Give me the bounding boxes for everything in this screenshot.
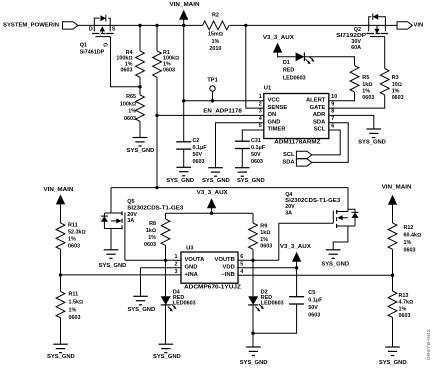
svg-text:Q5: Q5 xyxy=(127,199,134,205)
svg-text:SCL: SCL xyxy=(283,152,295,158)
svg-text:SDA: SDA xyxy=(313,119,326,125)
svg-text:GND: GND xyxy=(268,119,281,125)
svg-text:SYSTEM_POWERIN: SYSTEM_POWERIN xyxy=(3,22,59,28)
svg-text:VOUTA: VOUTA xyxy=(185,257,206,263)
svg-text:0603: 0603 xyxy=(404,247,416,253)
svg-text:0603: 0603 xyxy=(251,159,263,165)
svg-text:1: 1 xyxy=(175,254,178,260)
svg-text:1%: 1% xyxy=(212,39,220,45)
svg-text:0.1μF: 0.1μF xyxy=(193,145,208,151)
svg-text:TIMER: TIMER xyxy=(268,127,287,133)
svg-text:4: 4 xyxy=(259,116,262,122)
svg-text:60.4kΩ: 60.4kΩ xyxy=(404,232,422,238)
svg-text:SDA: SDA xyxy=(282,159,295,165)
svg-text:LED0603: LED0603 xyxy=(173,300,196,306)
svg-text:LED0603: LED0603 xyxy=(283,75,306,81)
svg-text:1%: 1% xyxy=(404,240,412,246)
svg-text:1%: 1% xyxy=(362,88,370,94)
svg-text:4.7kΩ: 4.7kΩ xyxy=(399,300,414,306)
svg-text:0603: 0603 xyxy=(144,242,156,248)
svg-text:1kΩ: 1kΩ xyxy=(260,230,270,236)
svg-text:R11: R11 xyxy=(68,223,78,229)
svg-text:R65: R65 xyxy=(126,94,136,100)
svg-text:SYS_GND: SYS_GND xyxy=(127,148,155,154)
svg-text:SI2302CDS-T1-GE3: SI2302CDS-T1-GE3 xyxy=(127,206,183,212)
svg-text:0603: 0603 xyxy=(163,68,175,74)
svg-text:1%: 1% xyxy=(392,88,400,94)
svg-text:SI7192DP: SI7192DP xyxy=(336,33,366,39)
svg-text:Si2302CDS-T1-GE3: Si2302CDS-T1-GE3 xyxy=(285,198,340,204)
svg-text:0603: 0603 xyxy=(260,244,272,250)
svg-text:R11: R11 xyxy=(69,292,79,298)
svg-text:SYS_GND: SYS_GND xyxy=(166,178,194,184)
svg-text:VDD: VDD xyxy=(223,265,235,271)
svg-text:50V: 50V xyxy=(308,305,318,311)
svg-text:VCC: VCC xyxy=(268,98,281,104)
svg-text:−INB: −INB xyxy=(221,272,234,278)
svg-text:1%: 1% xyxy=(260,237,268,243)
svg-text:R5: R5 xyxy=(362,75,369,81)
svg-text:0603: 0603 xyxy=(308,313,320,319)
svg-text:50V: 50V xyxy=(193,152,203,158)
svg-text:V3_3_AUX: V3_3_AUX xyxy=(263,35,294,41)
svg-text:10: 10 xyxy=(331,94,337,100)
svg-text:0603: 0603 xyxy=(124,116,136,122)
svg-text:ALERT: ALERT xyxy=(306,98,326,104)
svg-text:SCL: SCL xyxy=(314,127,326,133)
svg-text:1kΩ: 1kΩ xyxy=(362,82,372,88)
svg-text:R13: R13 xyxy=(399,293,409,299)
svg-text:EN_ADP1178: EN_ADP1178 xyxy=(203,108,242,114)
svg-text:50V: 50V xyxy=(251,152,261,158)
svg-text:1.5kΩ: 1.5kΩ xyxy=(69,300,84,306)
svg-text:Q4: Q4 xyxy=(285,192,292,198)
svg-text:6: 6 xyxy=(331,123,334,129)
svg-text:D1: D1 xyxy=(283,60,290,66)
svg-text:VOUTB: VOUTB xyxy=(215,257,235,263)
svg-text:ADR: ADR xyxy=(313,112,326,118)
svg-text:8: 8 xyxy=(331,109,334,115)
svg-text:0603: 0603 xyxy=(193,159,205,165)
svg-text:1: 1 xyxy=(259,94,262,100)
svg-text:U1: U1 xyxy=(264,85,272,91)
svg-text:V3_3_AUX: V3_3_AUX xyxy=(197,190,228,196)
svg-text:52.3kΩ: 52.3kΩ xyxy=(68,230,86,236)
svg-text:G: G xyxy=(102,43,108,47)
svg-text:2: 2 xyxy=(175,262,178,268)
svg-text:100kΩ: 100kΩ xyxy=(120,101,136,107)
svg-text:0603: 0603 xyxy=(69,315,81,321)
svg-text:1kΩ: 1kΩ xyxy=(146,228,156,234)
svg-text:10Ω: 10Ω xyxy=(392,82,402,88)
svg-text:C2: C2 xyxy=(193,138,200,144)
svg-text:Q1: Q1 xyxy=(80,43,87,49)
svg-text:6: 6 xyxy=(240,254,243,260)
svg-text:TP1: TP1 xyxy=(207,77,218,83)
svg-text:1%: 1% xyxy=(128,109,136,115)
svg-text:D: D xyxy=(89,27,93,33)
svg-text:SYS_GND: SYS_GND xyxy=(127,307,155,313)
svg-text:SYS_GND: SYS_GND xyxy=(202,178,230,184)
svg-text:1%: 1% xyxy=(399,306,407,312)
svg-text:R8: R8 xyxy=(149,221,156,227)
svg-text:C31: C31 xyxy=(251,138,261,144)
svg-text:1%: 1% xyxy=(68,237,76,243)
svg-text:0603: 0603 xyxy=(392,95,404,101)
svg-text:ADM1178ARMZ: ADM1178ARMZ xyxy=(274,140,321,146)
svg-text:0603: 0603 xyxy=(362,95,374,101)
svg-text:SYS_GND: SYS_GND xyxy=(379,360,407,366)
svg-text:9: 9 xyxy=(331,101,334,107)
svg-text:U3: U3 xyxy=(186,245,194,251)
svg-text:RED: RED xyxy=(283,68,294,74)
svg-text:0603: 0603 xyxy=(68,244,80,250)
svg-text:VIN: VIN xyxy=(414,22,424,28)
svg-text:R9: R9 xyxy=(260,223,267,229)
svg-text:09678-002: 09678-002 xyxy=(426,328,431,360)
svg-text:0.1μF: 0.1μF xyxy=(308,298,323,304)
svg-text:ON: ON xyxy=(268,112,277,118)
svg-text:SYS_GND: SYS_GND xyxy=(358,139,386,145)
svg-text:R3: R3 xyxy=(392,75,399,81)
svg-text:20V: 20V xyxy=(285,204,295,210)
svg-text:SYS_GND: SYS_GND xyxy=(237,178,265,184)
svg-text:20V: 20V xyxy=(127,212,137,218)
svg-text:15mΩ: 15mΩ xyxy=(208,31,223,37)
svg-text:0603: 0603 xyxy=(121,68,133,74)
svg-text:2010: 2010 xyxy=(209,46,221,52)
svg-text:SYS_GND: SYS_GND xyxy=(240,360,268,366)
svg-text:S: S xyxy=(112,27,116,33)
svg-text:SYS_GND: SYS_GND xyxy=(99,263,127,269)
svg-text:SYS_GND: SYS_GND xyxy=(153,354,181,360)
svg-text:LED0603: LED0603 xyxy=(261,300,284,306)
svg-text:GATE: GATE xyxy=(310,105,326,111)
svg-text:VIN_MAIN: VIN_MAIN xyxy=(382,184,412,190)
svg-text:SYS_GND: SYS_GND xyxy=(321,262,349,268)
svg-text:VIN_MAIN: VIN_MAIN xyxy=(170,2,200,8)
svg-text:R12: R12 xyxy=(404,225,414,231)
svg-text:R2: R2 xyxy=(212,13,219,19)
svg-text:C5: C5 xyxy=(308,290,315,296)
svg-text:3A: 3A xyxy=(127,218,134,224)
svg-text:1%: 1% xyxy=(148,235,156,241)
svg-text:+INA: +INA xyxy=(185,272,199,278)
svg-text:1%: 1% xyxy=(69,307,77,313)
svg-text:3A: 3A xyxy=(285,210,292,216)
svg-text:0603: 0603 xyxy=(399,313,411,319)
svg-text:SENSE: SENSE xyxy=(268,105,288,111)
svg-text:3: 3 xyxy=(259,109,262,115)
svg-text:GND: GND xyxy=(185,265,198,271)
svg-text:SYS_GND: SYS_GND xyxy=(47,354,75,360)
svg-text:3: 3 xyxy=(175,269,178,275)
svg-text:0.1μF: 0.1μF xyxy=(251,145,266,151)
svg-text:60A: 60A xyxy=(351,45,361,51)
svg-text:5: 5 xyxy=(240,262,243,268)
svg-text:2: 2 xyxy=(259,101,262,107)
svg-text:ADCMP670-1YUJZ: ADCMP670-1YUJZ xyxy=(184,285,242,291)
svg-text:V3_3_AUX: V3_3_AUX xyxy=(280,244,311,250)
svg-text:VIN_MAIN: VIN_MAIN xyxy=(43,187,73,193)
svg-text:4: 4 xyxy=(240,269,243,275)
svg-text:Si7461DP: Si7461DP xyxy=(80,49,105,55)
svg-text:7: 7 xyxy=(331,116,334,122)
svg-text:5: 5 xyxy=(259,123,262,129)
